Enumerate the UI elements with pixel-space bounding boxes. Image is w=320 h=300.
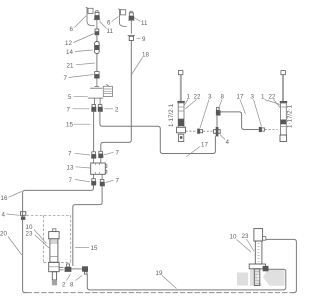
svg-text:6: 6	[70, 26, 74, 33]
label 4 right	[220, 135, 230, 147]
label row 1 right	[261, 94, 280, 105]
svg-text:1: 1	[261, 94, 265, 101]
label 7 manifold left	[67, 107, 90, 114]
label 21	[67, 63, 96, 70]
pipe 19	[87, 269, 285, 290]
label 7 block bottom-right	[106, 178, 120, 185]
svg-text:21: 21	[67, 63, 74, 70]
svg-text:6: 6	[107, 20, 111, 27]
label 7 block top-left	[68, 151, 90, 158]
svg-text:16: 16	[1, 195, 8, 202]
svg-text:10: 10	[230, 234, 237, 241]
svg-text:1·17/2·1: 1·17/2·1	[287, 104, 294, 128]
fitting 11 left	[94, 11, 100, 26]
dashed link left	[186, 130, 197, 132]
label 7 block bottom-left	[69, 177, 91, 184]
fitting 11 right	[128, 11, 134, 34]
svg-text:1: 1	[187, 94, 191, 101]
svg-text:12: 12	[65, 40, 72, 47]
label 11 right	[134, 18, 148, 28]
elbow fitting 8 top	[216, 108, 221, 127]
svg-text:17: 17	[201, 142, 208, 149]
label 10 right	[230, 234, 252, 253]
filter 14	[95, 42, 100, 54]
pipe 16/20 left run	[23, 186, 94, 293]
pipe right riser	[266, 239, 297, 292]
label row 3 left	[200, 94, 212, 129]
connector 9	[128, 36, 135, 41]
pipe 17 upper right	[221, 112, 259, 130]
label row 3 right	[251, 94, 262, 127]
lift cylinder 1 right	[280, 71, 287, 142]
svg-text:14: 14	[66, 49, 73, 56]
label 6 left	[70, 16, 87, 33]
elbow fitting 8	[82, 266, 88, 274]
fitting 7 upper	[94, 72, 99, 87]
svg-text:7: 7	[116, 178, 120, 185]
label row 22 right	[269, 94, 282, 109]
svg-text:3: 3	[251, 94, 255, 101]
label row 17	[237, 94, 246, 115]
pipe 15 upper	[93, 112, 95, 152]
label 2 manifold right	[105, 107, 120, 114]
label 16	[1, 192, 22, 203]
label 11 left	[100, 21, 114, 35]
label 9	[137, 36, 147, 43]
svg-text:7: 7	[68, 151, 72, 158]
label 2	[62, 274, 71, 289]
svg-text:23: 23	[26, 231, 33, 238]
wire pipe 12-14	[96, 35, 98, 41]
svg-text:20: 20	[0, 231, 7, 238]
svg-text:9: 9	[142, 36, 146, 43]
dashed link right	[265, 129, 278, 131]
svg-text:2: 2	[115, 107, 119, 114]
clamp fitting 4 left	[20, 212, 25, 220]
fitting 2 manifold right	[98, 105, 103, 112]
label 17 lower	[187, 142, 209, 157]
svg-text:15: 15	[66, 122, 73, 129]
label row 1	[184, 94, 191, 107]
tee fitting 4	[214, 127, 221, 137]
base chassis line	[27, 292, 293, 294]
wire pipe 21	[96, 54, 98, 72]
svg-text:11: 11	[141, 20, 148, 27]
cylinder 10 left	[49, 229, 59, 285]
label 14	[66, 49, 93, 56]
port stub left cylinder	[59, 267, 63, 270]
svg-text:7: 7	[116, 150, 120, 157]
pipe 15 lower	[73, 186, 102, 266]
svg-text:2: 2	[62, 282, 66, 289]
lift cylinder 1 left	[177, 71, 186, 142]
fitting 7 block bottom-right	[100, 174, 105, 186]
label 18	[131, 52, 150, 76]
dashed link mid	[203, 130, 214, 132]
svg-text:15: 15	[91, 245, 98, 252]
manifold 5	[88, 84, 112, 104]
dashed bracket line	[27, 215, 71, 262]
cylinder 10 right	[249, 229, 266, 286]
fitting 3 left	[197, 129, 202, 134]
label 7 block top-right	[104, 150, 120, 157]
bracket 6 left	[86, 7, 95, 26]
connector 12	[95, 26, 100, 36]
svg-text:19: 19	[156, 270, 163, 277]
svg-text:7: 7	[69, 177, 73, 184]
label 15 lower	[75, 245, 98, 252]
label 20	[0, 231, 22, 256]
label 12	[65, 34, 94, 48]
svg-text:7: 7	[67, 107, 71, 114]
label 23 right	[242, 233, 255, 251]
label 13	[67, 165, 91, 172]
valve block 13	[91, 158, 107, 174]
label 4 left	[2, 212, 20, 219]
svg-text:4: 4	[226, 139, 230, 146]
watermark logo	[237, 269, 285, 286]
elbow fitting right cylinder	[263, 266, 269, 271]
pipe 17 long	[100, 112, 215, 154]
svg-text:13: 13	[67, 165, 74, 172]
svg-text:3: 3	[208, 94, 212, 101]
svg-text:1·17/2·1: 1·17/2·1	[168, 103, 175, 127]
label 10 left	[26, 224, 47, 244]
label 15 upper	[66, 122, 91, 129]
svg-text:8: 8	[70, 282, 74, 289]
svg-text:8: 8	[221, 94, 225, 101]
label row 22	[185, 94, 201, 110]
label 7 upper	[64, 75, 94, 83]
svg-text:11: 11	[107, 28, 114, 35]
svg-text:23: 23	[242, 233, 249, 240]
fitting 7 manifold left	[91, 105, 96, 112]
label 23 left	[26, 231, 50, 249]
svg-text:5: 5	[68, 94, 72, 101]
bracket 6 right	[118, 9, 126, 27]
fitting 7 block bottom-left	[91, 174, 96, 185]
svg-text:22: 22	[269, 94, 276, 101]
svg-text:18: 18	[142, 52, 149, 59]
svg-text:7: 7	[64, 75, 68, 82]
fitting 7 block top-right	[98, 151, 103, 158]
label 8	[70, 276, 82, 289]
pipe 18	[101, 41, 132, 152]
label row 8	[219, 94, 225, 109]
label 19	[156, 270, 177, 289]
fitting 3 right	[259, 127, 265, 132]
label 5	[68, 94, 88, 101]
label 6 right	[107, 17, 119, 27]
fitting 7 block top-left	[91, 152, 96, 159]
tee fitting 2	[65, 264, 82, 272]
svg-text:4: 4	[2, 212, 6, 219]
svg-text:22: 22	[194, 94, 201, 101]
